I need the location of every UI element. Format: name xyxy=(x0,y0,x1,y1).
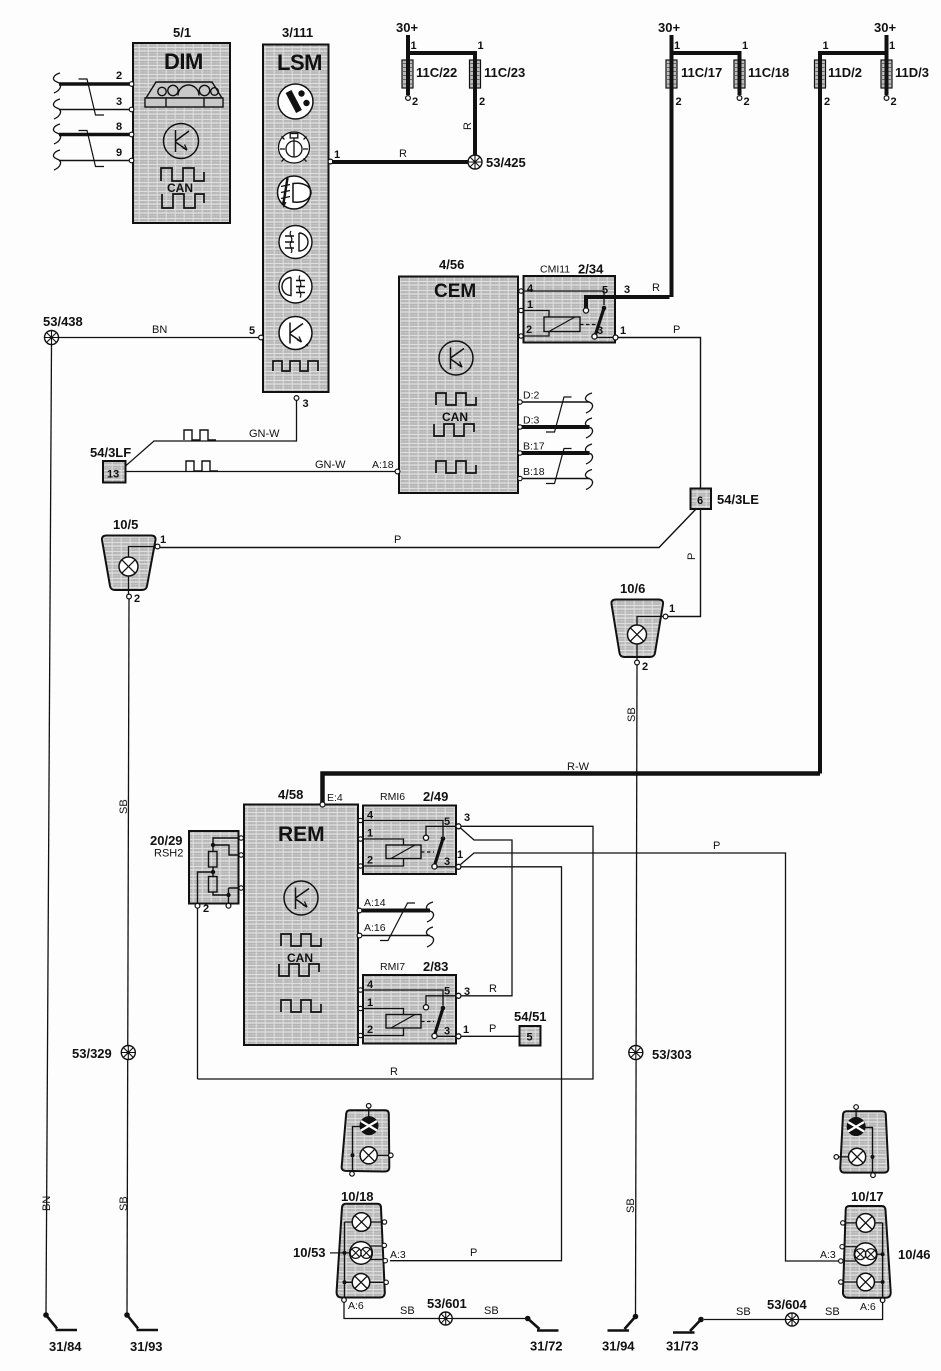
svg-text:E:4: E:4 xyxy=(327,792,343,804)
svg-text:2: 2 xyxy=(412,96,418,108)
light switch module LSM 3/111 xyxy=(263,25,329,392)
connector 53/329 xyxy=(72,1046,135,1062)
svg-text:SB: SB xyxy=(400,1305,415,1317)
svg-text:2: 2 xyxy=(744,96,750,108)
svg-text:4: 4 xyxy=(527,283,534,295)
cable marker slash DIM 2/3 xyxy=(79,79,105,115)
CEM pin A:18 terminal xyxy=(372,459,400,474)
svg-text:53/425: 53/425 xyxy=(486,155,526,170)
wire P net RMI6:1 long to right lamp 10/46 A:3 xyxy=(461,840,841,1261)
svg-text:CMI11: CMI11 xyxy=(540,264,570,276)
svg-text:SB: SB xyxy=(625,1198,637,1213)
svg-text:31/73: 31/73 xyxy=(666,1339,699,1354)
wire R-W fuse 11D/2 to REM E:4 xyxy=(323,761,821,804)
fuse 11C/17 xyxy=(658,20,722,297)
svg-text:1: 1 xyxy=(478,40,484,52)
wire P relay 2/34 to connector 54/3LE xyxy=(618,324,701,489)
LSM front fog icon xyxy=(279,226,312,259)
connector 53/438 xyxy=(43,314,83,345)
svg-text:20/29: 20/29 xyxy=(150,833,183,848)
svg-text:11C/17: 11C/17 xyxy=(681,65,722,80)
bulb xyxy=(360,1147,377,1164)
svg-text:53/604: 53/604 xyxy=(767,1297,808,1312)
svg-text:6: 6 xyxy=(697,495,703,507)
CEM transistor icon xyxy=(439,341,473,375)
wire P RMI7:3 to connector 54/51 xyxy=(461,1023,520,1036)
svg-text:1: 1 xyxy=(823,40,829,52)
REM pin E:4 xyxy=(320,792,343,807)
svg-text:2/49: 2/49 xyxy=(423,789,448,804)
svg-text:5/1: 5/1 xyxy=(173,25,191,40)
bulb xyxy=(849,1148,866,1165)
svg-text:RMI6: RMI6 xyxy=(380,791,405,803)
svg-text:CAN: CAN xyxy=(442,410,468,424)
RMI7 pin 2 xyxy=(358,1024,404,1038)
wire R LSM:1 to 53/425 xyxy=(332,148,475,162)
REM transistor icon xyxy=(284,881,318,915)
DIM pin 8 wire xyxy=(59,121,131,135)
wire R RMI7:3 xyxy=(461,983,512,996)
svg-text:1: 1 xyxy=(463,1024,469,1036)
svg-text:3: 3 xyxy=(597,325,603,337)
svg-text:53/438: 53/438 xyxy=(43,314,83,329)
svg-text:11C/23: 11C/23 xyxy=(484,65,525,80)
svg-text:5: 5 xyxy=(444,816,450,828)
wire R fuse 11C/17 to relay 2/34 pin 5 xyxy=(583,282,669,313)
svg-text:13: 13 xyxy=(107,469,119,481)
ground 31/94 xyxy=(602,1314,638,1354)
wire GN-W LSM:3 to 54/3LF xyxy=(126,401,297,467)
LSM pin 3 terminal xyxy=(294,396,309,410)
svg-text:D:2: D:2 xyxy=(523,390,540,402)
LSM transistor icon xyxy=(279,317,312,350)
svg-text:D:3: D:3 xyxy=(523,415,540,427)
DIM instrument-cluster icon xyxy=(145,82,223,107)
svg-text:P: P xyxy=(713,840,720,852)
CEM pin D:3 wire xyxy=(519,415,593,439)
REM square wave symbol xyxy=(281,1000,321,1012)
RMI7 switch arm and contacts xyxy=(423,986,470,1039)
CEM pin B:17 wire xyxy=(519,441,593,465)
connector 54/51 xyxy=(514,1009,547,1046)
svg-text:1: 1 xyxy=(669,603,675,615)
svg-text:1: 1 xyxy=(742,40,748,52)
wire break curls DIM xyxy=(53,73,60,170)
svg-text:53/329: 53/329 xyxy=(72,1046,112,1061)
svg-text:3: 3 xyxy=(444,856,450,868)
svg-text:53/303: 53/303 xyxy=(652,1047,692,1062)
svg-text:3: 3 xyxy=(444,1026,450,1038)
svg-text:1: 1 xyxy=(367,828,373,840)
fuse 11D/3 xyxy=(818,20,929,108)
svg-text:2: 2 xyxy=(676,96,682,108)
lamp 10/46 dual filament bulb xyxy=(854,1243,877,1266)
CEM right-edge pin terminals xyxy=(518,400,522,481)
DIM pin 2 wire xyxy=(59,70,131,84)
svg-text:RMI7: RMI7 xyxy=(380,961,405,973)
wire P net RMI6:1 to left lamp 10/53 A:3 xyxy=(390,867,562,1261)
svg-text:1: 1 xyxy=(674,40,680,52)
left side marker lamp unit xyxy=(342,1104,393,1177)
ground 31/73 xyxy=(666,1317,704,1354)
svg-text:3: 3 xyxy=(624,284,630,296)
svg-text:A:6: A:6 xyxy=(348,1300,364,1312)
wire BN 53/438 to LSM:5 xyxy=(59,324,260,338)
svg-text:SB: SB xyxy=(118,1196,130,1211)
svg-text:31/72: 31/72 xyxy=(530,1339,563,1354)
svg-text:31/84: 31/84 xyxy=(49,1339,82,1354)
svg-text:10/46: 10/46 xyxy=(898,1247,931,1262)
svg-text:R: R xyxy=(489,983,497,995)
connector 53/604 xyxy=(767,1297,808,1326)
svg-text:54/3LF: 54/3LF xyxy=(90,445,131,460)
svg-text:54/3LE: 54/3LE xyxy=(717,492,759,507)
svg-text:10/17: 10/17 xyxy=(851,1189,884,1204)
cable marker slash B:17/B:18 xyxy=(546,449,572,484)
connector 54/3LE xyxy=(691,489,760,510)
wire SB 10/18 A:6 to ground 31/72 xyxy=(344,1303,525,1319)
connector 53/303 xyxy=(629,1046,692,1063)
wire BN 53/438 down to ground 31/84 xyxy=(41,345,53,1315)
svg-text:30+: 30+ xyxy=(874,20,896,35)
svg-text:3: 3 xyxy=(303,398,309,410)
svg-text:11C/22: 11C/22 xyxy=(416,65,457,80)
cable marker slash D:2/D:3 xyxy=(546,397,572,432)
svg-text:BN: BN xyxy=(41,1196,53,1211)
svg-text:2/34: 2/34 xyxy=(578,262,604,277)
svg-text:10/6: 10/6 xyxy=(620,581,645,596)
RMI6 pin 2 xyxy=(358,855,404,869)
connector 53/425 xyxy=(468,155,526,170)
svg-text:P: P xyxy=(489,1023,496,1035)
LSM square wave symbol xyxy=(273,361,318,371)
svg-text:REM: REM xyxy=(278,823,325,846)
svg-text:4: 4 xyxy=(367,979,374,991)
dual filament indicator bulb xyxy=(360,1117,378,1135)
svg-text:3: 3 xyxy=(116,96,122,108)
svg-text:2: 2 xyxy=(479,96,485,108)
DIM CAN symbol xyxy=(161,168,204,208)
LSM headlight-switch icon xyxy=(278,84,313,119)
wire P 54/3LE down to lamp 10/6 pin 1 xyxy=(668,509,701,617)
parking lamp 10/5 xyxy=(102,517,166,605)
connector 54/3LF xyxy=(90,445,131,483)
svg-text:R: R xyxy=(390,1066,398,1078)
svg-text:CEM: CEM xyxy=(434,281,476,302)
svg-text:4/56: 4/56 xyxy=(439,257,464,272)
terminals between 20/29 and REM xyxy=(239,836,245,890)
ground 31/72 xyxy=(525,1316,563,1354)
svg-text:2: 2 xyxy=(367,1024,373,1036)
svg-text:SB: SB xyxy=(736,1306,751,1318)
fuse 11C/23 xyxy=(406,40,525,162)
relay 2/34 pin 1 xyxy=(519,299,549,317)
20/29 internal wiring and resistors xyxy=(198,838,239,904)
svg-text:2: 2 xyxy=(203,903,209,915)
svg-text:3: 3 xyxy=(464,812,470,824)
CEM pin D:2 wire xyxy=(519,390,593,414)
RMI6 pin 4 xyxy=(358,810,443,837)
svg-text:GN-W: GN-W xyxy=(249,428,280,440)
svg-text:54/51: 54/51 xyxy=(514,1009,547,1024)
DIM pin 3 wire xyxy=(59,96,131,110)
svg-text:10/53: 10/53 xyxy=(293,1245,326,1260)
svg-text:SB: SB xyxy=(118,799,130,814)
svg-text:A:16: A:16 xyxy=(364,922,386,934)
svg-text:R: R xyxy=(399,148,407,160)
svg-text:31/94: 31/94 xyxy=(602,1339,635,1354)
svg-text:2: 2 xyxy=(824,96,830,108)
lamp 10/17 top bulb xyxy=(856,1214,875,1233)
svg-text:1: 1 xyxy=(620,325,626,337)
svg-text:GN-W: GN-W xyxy=(315,459,346,471)
svg-text:2/83: 2/83 xyxy=(423,959,448,974)
svg-text:4: 4 xyxy=(367,810,374,822)
svg-text:SB: SB xyxy=(626,707,638,722)
svg-text:3/111: 3/111 xyxy=(282,25,313,40)
wire GN-W 54/3LF to CEM A:18 xyxy=(126,459,396,472)
relay 2/34 pin 4 xyxy=(519,283,604,305)
cable marker slash DIM 8/9 xyxy=(79,131,105,167)
parking lamp 10/6 xyxy=(611,581,675,673)
svg-text:1: 1 xyxy=(160,534,166,546)
lamp 10/18 top bulb xyxy=(352,1213,371,1232)
svg-text:B:17: B:17 xyxy=(523,441,545,453)
svg-text:10/5: 10/5 xyxy=(113,517,138,532)
tail lamp cluster 10/18 10/53 xyxy=(293,1189,406,1312)
relay RMI6 2/49 xyxy=(363,789,456,874)
svg-text:SB: SB xyxy=(484,1305,499,1317)
LSM headlight icon xyxy=(278,176,312,209)
svg-text:4/58: 4/58 xyxy=(278,787,303,802)
connector 53/601 xyxy=(427,1296,467,1325)
svg-text:11C/18: 11C/18 xyxy=(748,65,789,80)
RMI7 coil xyxy=(386,1015,434,1029)
svg-text:P: P xyxy=(686,553,698,560)
wire R net RMI6:3 to resistor 20/29 pin 2 xyxy=(198,826,594,1079)
svg-text:A:6: A:6 xyxy=(860,1301,876,1313)
svg-text:30+: 30+ xyxy=(658,20,680,35)
svg-text:1: 1 xyxy=(367,997,373,1009)
CEM pin B:18 wire xyxy=(519,466,593,490)
LSM rear fog icon xyxy=(279,270,312,303)
svg-text:1: 1 xyxy=(527,299,533,311)
svg-text:P: P xyxy=(394,534,401,546)
svg-text:10/18: 10/18 xyxy=(341,1189,374,1204)
lamp bottom bulb xyxy=(352,1274,370,1292)
svg-text:P: P xyxy=(673,324,680,336)
resistor pack 20/29 RSH2 xyxy=(150,831,239,904)
dual filament indicator bulb xyxy=(847,1118,865,1136)
svg-text:8: 8 xyxy=(116,121,122,133)
svg-text:BN: BN xyxy=(152,324,167,336)
svg-text:DIM: DIM xyxy=(164,49,203,74)
svg-text:30+: 30+ xyxy=(396,20,418,35)
svg-text:1: 1 xyxy=(411,40,417,52)
wire SB 10/6:2 to ground 31/94 xyxy=(625,665,638,1315)
LSM panel-light icon xyxy=(279,132,310,163)
ground 31/84 xyxy=(43,1312,82,1354)
svg-text:1: 1 xyxy=(889,40,895,52)
RMI7 pin 1 xyxy=(358,997,404,1015)
fuse 11C/18 xyxy=(670,40,790,108)
CEM square wave symbol xyxy=(436,461,476,473)
svg-text:P: P xyxy=(470,1247,477,1259)
svg-text:2: 2 xyxy=(526,324,532,336)
RMI6 pin 1 xyxy=(358,828,404,846)
svg-text:RSH2: RSH2 xyxy=(154,848,183,860)
svg-text:1: 1 xyxy=(457,849,463,861)
svg-text:B:18: B:18 xyxy=(523,466,545,478)
svg-text:1: 1 xyxy=(334,149,340,161)
svg-text:A:14: A:14 xyxy=(364,897,386,909)
svg-text:R: R xyxy=(462,122,474,130)
svg-text:5: 5 xyxy=(527,1032,533,1044)
REM pin A:14 wire xyxy=(357,897,433,922)
svg-text:2: 2 xyxy=(134,593,140,605)
fuse 11D/2 xyxy=(815,40,862,774)
svg-text:2: 2 xyxy=(367,855,373,867)
right side marker lamp unit xyxy=(834,1105,888,1178)
internal common wire to A:6 xyxy=(344,1222,346,1298)
lamp bottom bulb xyxy=(857,1273,875,1291)
CEM CAN symbol xyxy=(434,393,476,436)
svg-text:A:3: A:3 xyxy=(820,1249,836,1261)
REM CAN symbol xyxy=(279,934,321,976)
svg-text:11D/3: 11D/3 xyxy=(895,65,929,80)
RMI6 coil xyxy=(386,845,434,859)
wire R net RMI6:3 branch to RMI7:3 xyxy=(461,828,513,997)
internal common wire to A:6 xyxy=(882,1223,884,1298)
rear electronic module REM 4/58 xyxy=(244,787,358,1045)
svg-text:LSM: LSM xyxy=(277,50,322,75)
svg-text:5: 5 xyxy=(249,325,255,337)
wire P 54/3LE diagonal to front lamp feed xyxy=(160,509,696,548)
svg-text:R-W: R-W xyxy=(567,761,590,773)
cable marker slash A:14/A:16 xyxy=(380,903,415,941)
svg-text:R: R xyxy=(652,282,660,294)
DIM transistor icon xyxy=(164,124,199,159)
relay 2/34 switch arm xyxy=(592,306,626,340)
svg-text:53/601: 53/601 xyxy=(427,1296,467,1311)
svg-text:A:18: A:18 xyxy=(372,459,394,471)
REM pin A:16 wire xyxy=(357,922,433,947)
svg-text:11D/2: 11D/2 xyxy=(828,65,862,80)
svg-text:CAN: CAN xyxy=(287,951,313,965)
svg-text:SB: SB xyxy=(825,1306,840,1318)
svg-text:9: 9 xyxy=(116,147,122,159)
DIM pin 9 wire xyxy=(59,147,131,161)
relay 2/34 CMI11 xyxy=(524,262,616,343)
relay 2/34 pin 2 xyxy=(519,324,549,338)
RMI7 pin 4 xyxy=(358,979,443,1006)
DIM pin terminals xyxy=(129,82,134,163)
svg-text:5: 5 xyxy=(444,986,450,998)
control module DIM 5/1 xyxy=(133,25,230,223)
wire SB 10/17 A:6 to ground 31/73 xyxy=(704,1303,883,1320)
relay RMI7 2/83 xyxy=(363,959,456,1044)
ground 31/93 xyxy=(124,1312,162,1354)
relay 2/34 coil xyxy=(544,317,596,332)
svg-text:2: 2 xyxy=(642,661,648,673)
RMI6 switch arm and contacts xyxy=(423,812,470,869)
central electronic module CEM 4/56 xyxy=(399,257,518,493)
tail lamp cluster 10/17 10/46 xyxy=(820,1189,931,1313)
svg-text:2: 2 xyxy=(116,70,122,82)
LSM pin 5 terminal xyxy=(249,325,263,340)
svg-text:31/93: 31/93 xyxy=(130,1339,163,1354)
svg-text:2: 2 xyxy=(891,96,897,108)
LSM pin 1 terminal xyxy=(328,149,340,164)
lamp 10/53 dual filament bulb xyxy=(350,1242,373,1265)
svg-text:A:3: A:3 xyxy=(390,1249,406,1261)
svg-text:CAN: CAN xyxy=(167,181,193,195)
20/29 bottom pins xyxy=(195,903,231,915)
wire SB 10/5:2 to ground 31/93 xyxy=(118,599,130,1314)
fuse 11C/22 xyxy=(396,20,457,108)
svg-text:5: 5 xyxy=(602,285,608,297)
